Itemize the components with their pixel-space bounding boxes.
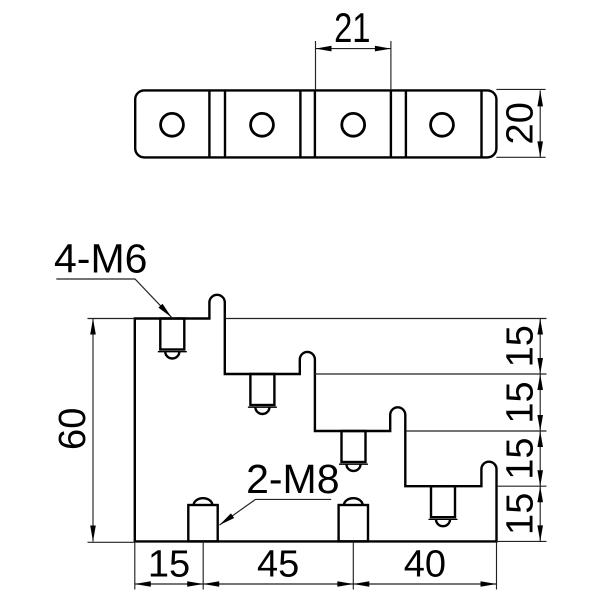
hole 3 — [342, 113, 365, 136]
bottom chain extension line 3 — [352, 541, 354, 589]
right chain extension line 3 — [406, 430, 547, 432]
stud M6 #1 rounded tip — [165, 352, 179, 359]
segment joint line 1b — [224, 90, 226, 157]
stud M6 #3 rounded tip — [347, 464, 361, 471]
hole 1 — [161, 113, 184, 136]
svg-text:4-M6: 4-M6 — [54, 236, 147, 282]
dim 21 arrow left — [316, 46, 332, 52]
stud M6 #4 rounded tip — [436, 519, 450, 526]
label 2-M8 leader arrow — [220, 513, 235, 525]
stud M6 #2 body — [250, 374, 274, 405]
bolt M8 #1 rounded head — [194, 498, 213, 505]
svg-text:15: 15 — [500, 437, 542, 479]
bottom chain extension line 2 — [202, 541, 204, 589]
stud M6 #4 shoulder line — [429, 518, 458, 520]
label 4-M6 leader arrow — [158, 304, 171, 318]
hole 4 — [431, 113, 454, 136]
stud M6 #2 rounded tip — [255, 407, 269, 414]
bottom chain extension line 4 — [496, 541, 498, 589]
right chain extension line 2 — [315, 373, 547, 375]
stud M6 #2 shoulder line — [248, 406, 277, 408]
svg-text:45: 45 — [257, 544, 299, 586]
dim 20 extension line top — [496, 88, 545, 90]
bolt M8 #2 body — [339, 505, 368, 541]
dim 21 arrow right — [375, 46, 391, 52]
svg-text:20: 20 — [499, 102, 541, 144]
side view: stepped body outline — [135, 295, 497, 542]
bottom dim arrow pair segment 1 — [135, 581, 151, 587]
dim 20 dimension line — [539, 90, 541, 157]
dim 20 extension line bottom — [496, 156, 545, 158]
svg-text:15: 15 — [500, 381, 542, 423]
stud M6 #1 body — [160, 319, 184, 350]
dim 21 extension line right — [390, 41, 392, 90]
segment joint line 1a — [208, 90, 210, 157]
bottom dim arrow pair segment 3 — [353, 581, 369, 587]
bolt M8 #1 body — [188, 505, 217, 541]
right chain extension line 1 — [225, 318, 547, 320]
dim 15 arrow pair segment 1 — [537, 319, 543, 335]
dim 20 arrow top — [537, 90, 543, 106]
dim 60 extension line bottom — [88, 541, 135, 543]
bottom chain dimension line — [135, 583, 497, 585]
dim 60 extension line top — [88, 318, 135, 320]
svg-text:21: 21 — [334, 4, 370, 51]
bolt M8 #2 rounded head — [344, 498, 363, 505]
dim 15 arrow pair segment 2 — [537, 374, 543, 390]
svg-text:2-M8: 2-M8 — [246, 456, 339, 502]
hole 2 — [251, 113, 274, 136]
right chain extension line 5 — [497, 540, 547, 542]
top view: busbar body outline — [135, 90, 496, 157]
right chain extension line 4 — [497, 485, 547, 487]
dim 60 arrow top — [90, 319, 96, 335]
stud M6 #3 shoulder line — [339, 463, 368, 465]
stud M6 #1 shoulder line — [158, 351, 187, 353]
dim 60 dimension line — [92, 319, 94, 542]
svg-text:15: 15 — [148, 544, 190, 586]
dim 21 dimension line — [316, 48, 391, 50]
dim 15 arrow pair segment 4 — [537, 486, 543, 502]
dim 21 extension line left — [315, 41, 317, 90]
label 4-M6 leader line — [56, 279, 171, 317]
dim 20 arrow bottom — [537, 141, 543, 157]
label 2-M8 leader line — [220, 499, 332, 525]
segment joint line 2b — [314, 90, 316, 157]
end cap joint line — [480, 90, 482, 157]
svg-text:60: 60 — [52, 408, 94, 450]
bottom dim arrow pair segment 2 — [203, 581, 219, 587]
stud M6 #4 body — [431, 486, 455, 517]
svg-text:15: 15 — [500, 493, 542, 535]
segment joint line 2a — [299, 90, 301, 157]
svg-text:15: 15 — [500, 325, 542, 367]
dim 60 arrow bottom — [90, 526, 96, 542]
segment joint line 3b — [405, 90, 407, 157]
bottom chain extension line 1 — [134, 541, 136, 589]
dim 15 arrow pair segment 3 — [537, 431, 543, 447]
right chain dimension line — [539, 319, 541, 542]
svg-text:40: 40 — [404, 544, 446, 586]
stud M6 #3 body — [342, 431, 366, 462]
segment joint line 3a — [390, 90, 392, 157]
